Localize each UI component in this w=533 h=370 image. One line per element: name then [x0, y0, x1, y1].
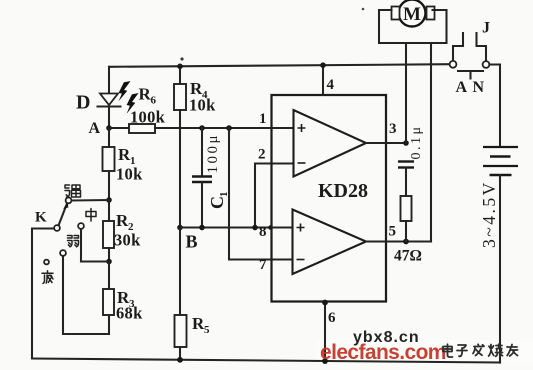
switch K arm	[59, 204, 68, 226]
svg-text:M: M	[403, 4, 421, 25]
svg-text:3: 3	[389, 121, 397, 137]
wire pin5 output	[366, 240, 431, 242]
wire top-left drop to diode	[108, 67, 110, 93]
label night (CJK)	[42, 271, 53, 284]
scan speck	[362, 8, 365, 11]
resistor R2	[103, 200, 114, 262]
wire strong contact to node	[72, 199, 109, 202]
node R1/R2/strong	[106, 197, 112, 203]
wire node B line to pin8	[180, 226, 293, 228]
wire diode to node A	[108, 107, 110, 128]
wire R6 to pin1	[155, 127, 294, 129]
node B	[177, 225, 183, 231]
node pin3	[403, 140, 409, 146]
svg-text:K: K	[35, 210, 47, 226]
label 100u (rotated)	[205, 133, 221, 174]
wire pin7 drop (A to pin7)	[229, 128, 292, 260]
op-amp U1a	[294, 110, 367, 177]
node R2/R3/mid	[106, 259, 112, 265]
battery BT	[483, 147, 518, 363]
capacitor 0.1u	[398, 162, 414, 197]
label 0.1u (rotated)	[409, 124, 424, 159]
wire A to R6	[109, 127, 129, 129]
switch K arrowhead	[63, 202, 68, 209]
svg-text:0.1μ: 0.1μ	[409, 124, 424, 159]
svg-text:elecfans.com: elecfans.com	[320, 341, 446, 364]
resistor R5	[175, 228, 187, 360]
node A	[106, 125, 112, 131]
svg-text:J: J	[482, 20, 490, 37]
label mid (CJK)	[86, 209, 96, 222]
svg-text:100k: 100k	[130, 108, 166, 127]
light arrows	[119, 81, 139, 114]
pushbutton J left contact	[450, 33, 463, 68]
svg-text:3~4.5V: 3~4.5V	[479, 180, 499, 248]
label strong (CJK)	[65, 185, 81, 197]
svg-text:47Ω: 47Ω	[394, 248, 422, 265]
wire mid contact to node	[81, 230, 109, 262]
wire pin2 drop (pin2 to B)	[255, 164, 294, 228]
svg-text:100μ: 100μ	[205, 133, 221, 174]
scan speck	[180, 57, 183, 60]
node R5 bottom	[177, 357, 183, 363]
svg-text:68k: 68k	[116, 304, 143, 323]
label weak (CJK)	[68, 236, 79, 247]
label 3~4.5V (rotated)	[479, 180, 499, 248]
wire bottom rail	[32, 359, 500, 363]
resistor R1	[103, 128, 115, 200]
wire pin4 to rail	[322, 65, 324, 95]
svg-text:4: 4	[327, 77, 335, 93]
svg-text:6: 6	[151, 95, 157, 107]
svg-text:AN: AN	[456, 79, 490, 96]
switch K pole wire	[32, 229, 54, 359]
resistor R4	[174, 66, 186, 227]
node pin6 bottom	[322, 358, 328, 364]
photodiode D	[98, 94, 121, 107]
contact weak	[60, 250, 66, 256]
wire top rail	[109, 64, 450, 67]
svg-text:1: 1	[259, 111, 267, 127]
node B line at IC edge	[268, 225, 273, 230]
resistor R3	[103, 262, 114, 335]
resistor R6 (horizontal)	[129, 124, 155, 133]
svg-text:6: 6	[328, 310, 336, 326]
watermark CJK dianzifashaoyou	[443, 344, 518, 357]
wire pin6 to bottom rail	[324, 302, 326, 362]
label C1 (rotated)	[207, 192, 230, 210]
wire J to battery top	[489, 65, 500, 148]
IC KD28 box	[272, 95, 387, 302]
node 47ohm bottom	[403, 239, 409, 245]
watermark light strip	[316, 340, 533, 363]
svg-text:B: B	[186, 232, 198, 252]
node C1 bottom	[199, 225, 205, 231]
node pin6 top	[322, 300, 328, 306]
motor M	[392, 0, 435, 27]
svg-text:A: A	[89, 120, 101, 137]
svg-text:5: 5	[204, 324, 210, 336]
contact mid	[78, 223, 84, 229]
pushbutton J right contact	[477, 33, 490, 68]
svg-text:8: 8	[259, 224, 267, 240]
pushbutton J actuator bar	[458, 71, 483, 79]
svg-text:5: 5	[389, 224, 397, 240]
wire motor left lead	[405, 43, 407, 143]
node R4 top	[177, 64, 183, 70]
svg-text:30k: 30k	[114, 231, 141, 250]
resistor 47ohm	[401, 196, 412, 242]
capacitor C1	[192, 128, 212, 228]
svg-text:2: 2	[258, 147, 266, 163]
node C1 top	[199, 125, 205, 131]
wire R3 bottom to weak contact	[63, 256, 109, 334]
node pin4 rail	[320, 62, 326, 68]
switch K pole contact	[54, 225, 60, 231]
svg-text:D: D	[76, 92, 90, 114]
contact night	[44, 260, 49, 265]
svg-text:10k: 10k	[189, 96, 216, 115]
svg-text:7: 7	[259, 257, 267, 273]
wire pin3 output	[366, 142, 406, 144]
svg-text:KD28: KD28	[318, 180, 368, 202]
wire motor pedestal	[379, 10, 447, 43]
op-amp U1b	[293, 210, 367, 275]
wire motor right lead	[430, 43, 432, 242]
node pin2/B	[252, 225, 258, 231]
node pin7 drop top	[226, 125, 232, 131]
svg-text:10k: 10k	[116, 165, 143, 184]
contact strong	[66, 198, 72, 204]
